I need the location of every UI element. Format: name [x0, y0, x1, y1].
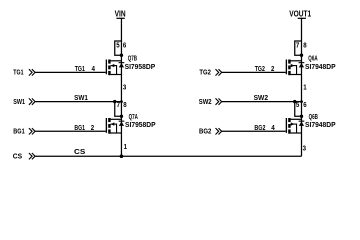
svg-text:SW2: SW2 [199, 97, 212, 106]
svg-text:TG1: TG1 [13, 68, 23, 77]
svg-text:3: 3 [303, 143, 306, 152]
svg-text:4: 4 [92, 64, 96, 73]
svg-text:5: 5 [296, 100, 299, 109]
svg-text:5: 5 [116, 41, 119, 50]
svg-text:2: 2 [91, 123, 94, 132]
svg-text:6: 6 [303, 100, 306, 109]
svg-text:BG1: BG1 [74, 123, 85, 132]
svg-text:SW1: SW1 [74, 93, 88, 102]
svg-text:VIN: VIN [115, 9, 126, 18]
svg-text:8: 8 [123, 100, 126, 109]
svg-text:3: 3 [123, 83, 126, 92]
svg-text:7: 7 [117, 100, 120, 109]
svg-text:7: 7 [296, 41, 299, 50]
svg-text:TG2: TG2 [255, 64, 265, 73]
svg-text:BG1: BG1 [13, 127, 24, 136]
svg-text:BG2: BG2 [254, 123, 265, 132]
svg-text:SI7958DP: SI7958DP [125, 62, 156, 71]
svg-text:4: 4 [271, 123, 275, 132]
svg-text:TG2: TG2 [199, 68, 211, 77]
svg-text:6: 6 [123, 41, 126, 50]
svg-text:TG1: TG1 [75, 64, 85, 73]
svg-text:SW2: SW2 [254, 93, 269, 102]
svg-text:SI7948DP: SI7948DP [305, 120, 336, 129]
svg-text:VOUT1: VOUT1 [289, 9, 311, 18]
svg-text:SI7958DP: SI7958DP [125, 120, 156, 129]
svg-text:1: 1 [303, 83, 306, 92]
svg-text:1: 1 [124, 142, 127, 151]
svg-text:2: 2 [271, 64, 274, 73]
svg-text:CS: CS [74, 147, 85, 156]
svg-text:CS: CS [13, 152, 22, 161]
svg-text:8: 8 [303, 41, 306, 50]
svg-text:SW1: SW1 [13, 97, 25, 106]
svg-text:BG2: BG2 [199, 127, 211, 136]
svg-text:SI7948DP: SI7948DP [305, 62, 336, 71]
